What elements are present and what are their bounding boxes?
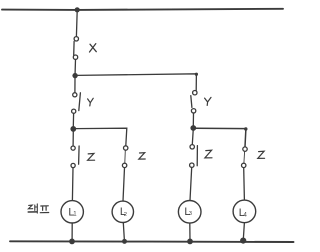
- wire J2 right and down to switch Y (right branch): [77, 74, 196, 91]
- switch Z (L3 branch): [190, 145, 198, 168]
- wire switch Z (L2) down to lamp L2: [123, 168, 125, 201]
- wire lamp L4 to bottom bus: [243, 223, 244, 240]
- switch X: [73, 37, 78, 60]
- wire switch X to node J2: [74, 60, 76, 74]
- lamp L1: [61, 201, 83, 223]
- wire lamp L2 to bottom bus: [123, 223, 124, 241]
- junction node J2 (below X): [72, 73, 77, 78]
- lamp L3: [178, 201, 201, 224]
- top supply bus wire: [2, 9, 283, 10]
- junction node (L2 at bottom bus): [122, 239, 127, 244]
- junction node (L3 at bottom bus): [187, 239, 193, 245]
- wire J3 right and down to switch Z (L2 branch): [76, 128, 127, 146]
- label Y (left): [88, 98, 94, 106]
- corner blob at L4 branch turn: [244, 127, 247, 130]
- label X: [90, 44, 97, 52]
- lamp L4: [233, 200, 256, 223]
- label 램프 (Korean: lamp): [28, 204, 49, 213]
- switch Y (right): [191, 91, 197, 114]
- wire J3 down to switch Z (L1 branch): [72, 131, 74, 146]
- label Z (L3 branch): [205, 150, 212, 158]
- junction node J1 on top bus: [75, 7, 80, 12]
- junction node J4 (right Y bottom): [190, 125, 196, 131]
- bottom return bus wire: [10, 240, 294, 243]
- switch Y (left): [72, 93, 81, 114]
- junction node (L1 at bottom bus): [69, 239, 75, 245]
- wire lamp L3 to bottom bus: [189, 223, 191, 240]
- wire switch Y left to node J3: [72, 113, 74, 127]
- lamp L2: [112, 201, 133, 222]
- wire lamp L1 to bottom bus: [71, 223, 73, 240]
- junction node J3 (left Y bottom): [70, 126, 76, 132]
- wire J4 down to switch Z (L3 branch): [191, 130, 194, 144]
- wire J4 right and down to switch Z (L4 branch): [196, 128, 246, 147]
- svg-text:2: 2: [124, 212, 127, 218]
- corner blob at right branch turn: [195, 73, 198, 76]
- switch Z (L1 branch): [71, 146, 79, 168]
- wire switch Z (L4) down to lamp L4: [243, 168, 246, 200]
- wire switch Y right to node J4: [192, 113, 194, 126]
- label Y (right): [205, 97, 211, 105]
- wire J2 down to switch Y (left): [74, 78, 76, 93]
- label Z (L2 branch): [139, 153, 145, 159]
- label Z (L1 branch): [88, 154, 95, 161]
- label Z (L4 branch): [258, 151, 265, 158]
- switch Z (L4 branch): [242, 147, 248, 168]
- junction node (L4 at bottom bus): [240, 238, 246, 244]
- switch Z (L2 branch): [122, 146, 128, 168]
- wire J1 down to switch X: [75, 11, 78, 37]
- svg-text:3: 3: [189, 211, 192, 217]
- wire switch Z (L3) down to lamp L3: [190, 167, 192, 200]
- wire switch Z (L1) down to lamp L1: [71, 168, 74, 201]
